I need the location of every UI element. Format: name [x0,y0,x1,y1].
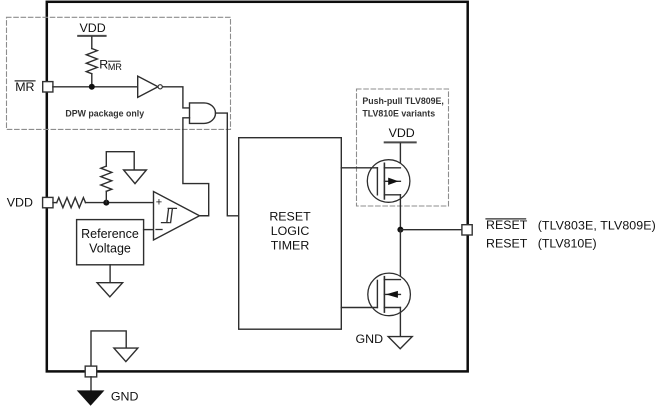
svg-text:RESET: RESET [486,218,528,232]
GND pin [85,366,97,377]
RESET (active low) output label [486,218,526,220]
svg-text:(TLV803E, TLV809E): (TLV803E, TLV809E) [538,218,656,232]
ground arrow (internal) [114,348,138,362]
svg-text:RESET: RESET [269,210,311,224]
RMR value label [99,58,122,73]
wire GND pin to internal ground arrow [91,331,126,366]
svg-text:MR: MR [108,62,122,72]
DPW package dashed box [7,17,231,129]
IC boundary box [47,2,468,372]
VDD rail bar (output stage) [385,141,416,143]
wire node to divider resistor [105,191,107,202]
ground arrow (output stage) [388,337,412,349]
wire comparator output to AND bottom input [183,118,209,216]
wire reference box to comparator minus input [144,229,154,231]
ground arrow (reference) [97,283,123,297]
wire resistor to comparator plus input [86,202,154,204]
wire GND pin to GND symbol [90,377,92,391]
svg-text:RESET: RESET [486,236,528,250]
svg-text:DPW package only: DPW package only [65,109,144,119]
wire RMR to node [91,74,93,87]
resistor (VDD sense) [57,198,86,208]
wire inverter to AND top input [163,87,190,108]
wire VDD bar to RMR [91,37,93,49]
hysteresis symbol [162,208,177,222]
svg-text:TLV810E variants: TLV810E variants [362,109,435,119]
svg-text:TIMER: TIMER [271,239,310,253]
resistor (divider) [101,166,112,191]
svg-text:VDD: VDD [80,21,106,35]
wire output node to RESET pin [400,229,462,231]
svg-text:Reference: Reference [81,227,139,241]
RESET LOGIC TIMER box [239,138,342,330]
wire VDD pin to resistor [53,202,57,204]
ground arrow (divider) [124,170,147,184]
GND symbol (filled triangle) [78,391,103,405]
inverter U2 [138,76,158,97]
push-pull variants dashed box [357,89,449,206]
VDD pin [43,197,53,207]
wire divider resistor to ground arrow [106,152,134,170]
svg-text:VDD: VDD [389,126,415,140]
node B (divider tap) [103,200,109,206]
svg-text:LOGIC: LOGIC [271,224,310,238]
svg-text:(TLV810E): (TLV810E) [538,237,597,251]
resistor RMR [86,49,97,74]
svg-text:VDD: VDD [7,195,33,209]
svg-text:GND: GND [356,332,384,346]
svg-text:Push-pull TLV809E,: Push-pull TLV809E, [362,96,443,106]
wire reference box to ground [109,265,111,283]
wire MR pin to inverter [53,86,138,88]
comparator minus input [156,229,162,231]
VDD rail bar (RMR) [78,35,105,37]
transistor Q2 (NMOS) [341,273,410,337]
svg-text:GND: GND [111,390,139,404]
Reference Voltage box [77,220,144,265]
node C (output node) [397,227,403,233]
inverter bubble [158,85,162,89]
MR pin [43,82,53,92]
RESET output pin [462,225,472,235]
wire output node to NMOS drain [399,230,401,280]
svg-text:+: + [156,196,162,208]
transistor Q1 (PMOS) [341,160,410,230]
AND gate U3 [190,103,216,124]
wire AND output to reset logic timer [216,113,239,216]
wire VDD bar to PMOS drain [399,143,401,167]
svg-text:MR: MR [15,80,34,94]
comparator U1 [154,192,200,241]
svg-text:Voltage: Voltage [89,241,131,255]
node A (MR/RMR junction) [89,84,95,90]
